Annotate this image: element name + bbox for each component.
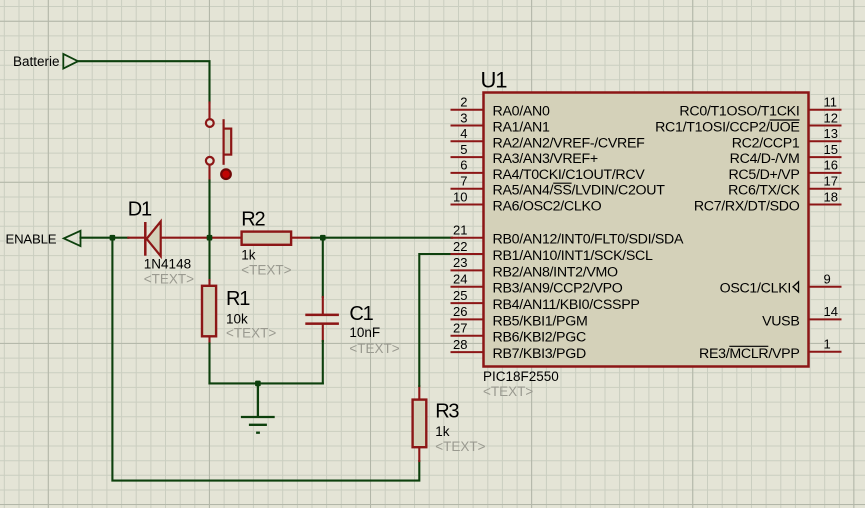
svg-text:6: 6 [460,158,467,173]
svg-text:RA2/AN2/VREF-/CVREF: RA2/AN2/VREF-/CVREF [493,135,646,151]
wire node down to C1 [322,238,324,297]
clock marker pin 9 [793,282,799,292]
U1 pin 11 (RC0/T1OSO/T1CKI) [679,95,841,120]
U1 pin 18 (RC7/RX/DT/SDO) [694,189,842,214]
svg-text:RC1/T1OSI/CCP2/UOE: RC1/T1OSI/CCP2/UOE [655,120,799,136]
svg-text:<TEXT>: <TEXT> [435,439,485,454]
resistor R3 [413,400,427,448]
svg-text:Batterie: Batterie [13,54,60,69]
wire R1 to bottom rail [208,344,210,384]
svg-text:2: 2 [460,95,467,110]
svg-text:<TEXT>: <TEXT> [241,262,291,277]
svg-text:25: 25 [453,288,467,303]
wire Batterie horizontal [78,61,210,102]
U1 pin 12 (RC1/T1OSI/CCP2/UOE) [655,110,841,135]
svg-text:RA1/AN1: RA1/AN1 [493,120,550,136]
svg-text:ENABLE: ENABLE [6,232,57,247]
svg-text:18: 18 [824,189,838,204]
svg-text:1N4148: 1N4148 [144,256,191,271]
svg-text:23: 23 [453,255,467,270]
svg-text:<TEXT>: <TEXT> [483,384,533,399]
svg-text:RA6/OSC2/CLKO: RA6/OSC2/CLKO [493,199,602,215]
wire R3 bottom pin [418,447,420,461]
U1 pin 7 (RA5/AN4/SS/LVDIN/C2OUT) [451,174,666,199]
U1 pin 3 (RA1/AN1) [451,110,550,135]
U1 pin 24 (RB3/AN9/CCP2/VPO) [451,272,623,297]
svg-text:<TEXT>: <TEXT> [349,341,399,356]
wire C1 bottom pin [322,325,324,341]
svg-text:RA0/AN0: RA0/AN0 [493,104,550,120]
wire R1 bottom pin [208,336,210,343]
svg-text:13: 13 [824,126,838,141]
diode D1 [145,222,160,257]
svg-text:RA3/AN3/VREF+: RA3/AN3/VREF+ [493,151,598,167]
svg-text:R1: R1 [226,288,250,310]
svg-text:RB1/AN10/INT1/SCK/SCL: RB1/AN10/INT1/SCK/SCL [493,248,653,264]
ground [241,383,275,432]
svg-text:R3: R3 [435,400,459,422]
U1 pin 21 (RB0/AN12/INT0/FLT0/SDI/SDA) [451,223,684,248]
resistor R1 [202,286,216,337]
wire ENABLE to D1 [81,237,129,239]
svg-text:11: 11 [824,95,838,110]
svg-text:17: 17 [824,174,838,189]
svg-text:PIC18F2550: PIC18F2550 [483,369,559,384]
svg-text:7: 7 [460,174,467,189]
U1 pin 4 (RA2/AN2/VREF-/CVREF) [451,126,646,151]
svg-text:<TEXT>: <TEXT> [144,271,194,286]
svg-text:10k: 10k [226,312,248,327]
U1 pin 15 (RC4/D-/VM) [730,142,842,167]
svg-text:RB4/AN11/KBI0/CSSPP: RB4/AN11/KBI0/CSSPP [493,297,640,313]
svg-text:10nF: 10nF [349,325,380,340]
terminal ENABLE [64,231,81,246]
svg-text:U1: U1 [481,68,508,93]
svg-text:RC2/CCP1: RC2/CCP1 [732,135,800,151]
svg-text:4: 4 [460,126,467,141]
svg-text:14: 14 [824,304,838,319]
wire C1 top pin [322,297,324,314]
svg-text:D1: D1 [128,198,152,220]
U1 pin 23 (RB2/AN8/INT2/VMO) [451,255,619,280]
wire button top pin [208,103,210,119]
svg-text:RC7/RX/DT/SDO: RC7/RX/DT/SDO [694,199,800,215]
U1 pin 25 (RB4/AN11/KBI0/CSSPP) [451,288,640,313]
svg-text:RC6/TX/CK: RC6/TX/CK [728,183,800,199]
svg-text:27: 27 [453,321,467,336]
svg-text:RB7/KBI3/PGD: RB7/KBI3/PGD [493,346,586,362]
svg-text:1: 1 [824,337,831,352]
U1 pin 14 (VUSB) [762,304,841,329]
U1 pin 17 (RC6/TX/CK) [728,174,841,199]
svg-text:12: 12 [824,110,838,125]
U1 pin 1 (RE3/MCLR/VPP) [699,337,841,362]
svg-text:1k: 1k [435,424,450,439]
wire button to node [208,181,210,238]
svg-text:22: 22 [453,239,467,254]
svg-text:RB3/AN9/CCP2/VPO: RB3/AN9/CCP2/VPO [493,281,623,297]
U1 pin 27 (RB6/KBI2/PGC) [451,321,586,346]
svg-text:RC0/T1OSO/T1CKI: RC0/T1OSO/T1CKI [679,104,799,120]
junction node 1 [110,235,116,241]
U1 pin 2 (RA0/AN0) [451,95,550,120]
junction node 4 [255,381,261,387]
U1 pin 22 (RB1/AN10/INT1/SCK/SCL) [451,239,653,264]
U1 pin 26 (RB5/KBI1/PGM) [451,304,588,329]
svg-text:R2: R2 [241,209,265,231]
svg-text:RA4/T0CKI/C1OUT/RCV: RA4/T0CKI/C1OUT/RCV [493,167,646,183]
svg-text:9: 9 [824,272,831,287]
svg-text:<TEXT>: <TEXT> [226,326,276,341]
wire R1 top pin [208,280,210,286]
wire R2 to pin21 [311,237,452,239]
svg-text:1k: 1k [241,248,256,263]
svg-text:5: 5 [460,142,467,157]
button state dot [221,169,231,179]
svg-text:OSC1/CLKI: OSC1/CLKI [720,281,791,297]
junction node 3 [320,235,326,241]
svg-text:10: 10 [453,189,467,204]
svg-text:16: 16 [824,158,838,173]
svg-text:RA5/AN4/SS/LVDIN/C2OUT: RA5/AN4/SS/LVDIN/C2OUT [493,183,666,199]
svg-text:RB2/AN8/INT2/VMO: RB2/AN8/INT2/VMO [493,264,619,280]
svg-text:C1: C1 [349,303,373,325]
U1 pin 28 (RB7/KBI3/PGD) [451,337,586,362]
U1 pin 13 (RC2/CCP1) [732,126,842,151]
IC U1 PIC18F2550 body [484,93,809,367]
svg-text:RC4/D-/VM: RC4/D-/VM [730,151,800,167]
svg-text:RB0/AN12/INT0/FLT0/SDI/SDA: RB0/AN12/INT0/FLT0/SDI/SDA [493,232,684,248]
svg-text:VUSB: VUSB [762,313,799,329]
svg-text:3: 3 [460,110,467,125]
wire D1 to R2 [161,237,242,239]
wire R3 to pin22 [419,254,452,386]
capacitor C1 [305,314,339,325]
svg-text:28: 28 [453,337,467,352]
push button [206,119,231,165]
wire node down to R1 [208,238,210,280]
wire left loop [112,238,419,481]
resistor R2 [242,232,292,245]
U1 pin 10 (RA6/OSC2/CLKO) [451,189,602,214]
svg-text:15: 15 [824,142,838,157]
wire button bottom pin [208,166,210,181]
U1 pin 16 (RC5/D+/VP) [728,158,841,183]
U1 pin 6 (RA4/T0CKI/C1OUT/RCV) [451,158,646,183]
wire C1 to bottom rail [322,341,324,383]
U1 pin 9 (OSC1/CLKI) [720,272,842,297]
U1 pin 5 (RA3/AN3/VREF+) [451,142,598,167]
svg-text:RB5/KBI1/PGM: RB5/KBI1/PGM [493,313,588,329]
svg-text:21: 21 [453,223,467,238]
svg-text:RB6/KBI2/PGC: RB6/KBI2/PGC [493,330,586,346]
wire D1 anode pin [128,237,144,239]
svg-text:RC5/D+/VP: RC5/D+/VP [728,167,799,183]
terminal Batterie [63,54,78,69]
wire R3 top pin [418,386,420,400]
wire R2 right pin [291,237,311,239]
svg-text:24: 24 [453,272,467,287]
svg-text:RE3/MCLR/VPP: RE3/MCLR/VPP [699,346,799,362]
svg-text:26: 26 [453,304,467,319]
junction node 2 [207,235,213,241]
wire bottom rail [210,382,323,384]
